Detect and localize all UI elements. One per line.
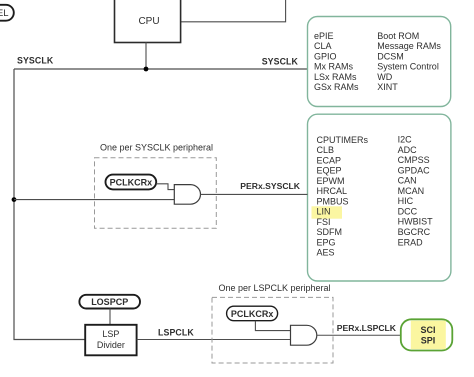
- svg-text:BGCRC: BGCRC: [398, 227, 431, 237]
- svg-text:AES: AES: [317, 248, 335, 258]
- svg-text:PMBUS: PMBUS: [317, 196, 349, 206]
- svg-text:PCLKCRx: PCLKCRx: [110, 178, 153, 188]
- svg-text:PERx.SYSCLK: PERx.SYSCLK: [240, 181, 300, 191]
- svg-text:SPI: SPI: [421, 336, 436, 346]
- svg-text:ERAD: ERAD: [398, 237, 424, 247]
- svg-text:GSx RAMs: GSx RAMs: [314, 82, 359, 92]
- svg-text:EPWM: EPWM: [317, 176, 345, 186]
- svg-text:I2C: I2C: [398, 135, 413, 145]
- svg-text:One per SYSCLK peripheral: One per SYSCLK peripheral: [100, 143, 213, 153]
- svg-text:ADC: ADC: [398, 145, 418, 155]
- svg-text:CLB: CLB: [317, 145, 335, 155]
- svg-text:LSP: LSP: [102, 329, 119, 339]
- svg-text:ePIE: ePIE: [314, 31, 334, 41]
- svg-text:LOSPCP: LOSPCP: [91, 297, 128, 307]
- svg-text:EPG: EPG: [317, 238, 336, 248]
- svg-text:EQEP: EQEP: [317, 166, 342, 176]
- svg-text:Mx RAMs: Mx RAMs: [314, 62, 353, 72]
- svg-text:XINT: XINT: [377, 82, 398, 92]
- svg-text:SDFM: SDFM: [317, 227, 343, 237]
- svg-text:HIC: HIC: [398, 196, 414, 206]
- svg-text:Boot ROM: Boot ROM: [377, 31, 419, 41]
- svg-text:HRCAL: HRCAL: [317, 186, 348, 196]
- svg-text:SYSCLK: SYSCLK: [17, 56, 54, 66]
- svg-text:Message RAMs: Message RAMs: [377, 41, 441, 51]
- svg-text:HWBIST: HWBIST: [398, 217, 434, 227]
- svg-text:System Control: System Control: [377, 62, 439, 72]
- svg-text:GPIO: GPIO: [314, 52, 337, 62]
- svg-text:CPUTIMERs: CPUTIMERs: [317, 135, 369, 145]
- svg-text:ECAP: ECAP: [317, 155, 342, 165]
- svg-text:One per LSPCLK peripheral: One per LSPCLK peripheral: [218, 283, 330, 293]
- svg-text:LSx RAMs: LSx RAMs: [314, 72, 357, 82]
- svg-text:CLA: CLA: [314, 41, 332, 51]
- svg-text:MCAN: MCAN: [398, 186, 425, 196]
- svg-text:FSI: FSI: [317, 217, 331, 227]
- svg-text:PERx.LSPCLK: PERx.LSPCLK: [337, 323, 397, 333]
- svg-text:EL: EL: [0, 8, 9, 19]
- svg-text:PCLKCRx: PCLKCRx: [231, 309, 274, 319]
- svg-text:DCSM: DCSM: [377, 52, 404, 62]
- svg-text:CPU: CPU: [138, 16, 159, 27]
- svg-text:SYSCLK: SYSCLK: [262, 57, 299, 67]
- svg-text:SCI: SCI: [420, 325, 435, 335]
- svg-text:GPDAC: GPDAC: [398, 165, 431, 175]
- svg-text:LSPCLK: LSPCLK: [158, 328, 194, 338]
- svg-text:DCC: DCC: [398, 207, 418, 217]
- svg-text:WD: WD: [377, 72, 392, 82]
- svg-text:Divider: Divider: [97, 340, 125, 350]
- svg-text:LIN: LIN: [317, 207, 331, 217]
- svg-text:CAN: CAN: [398, 176, 417, 186]
- svg-text:CMPSS: CMPSS: [398, 155, 430, 165]
